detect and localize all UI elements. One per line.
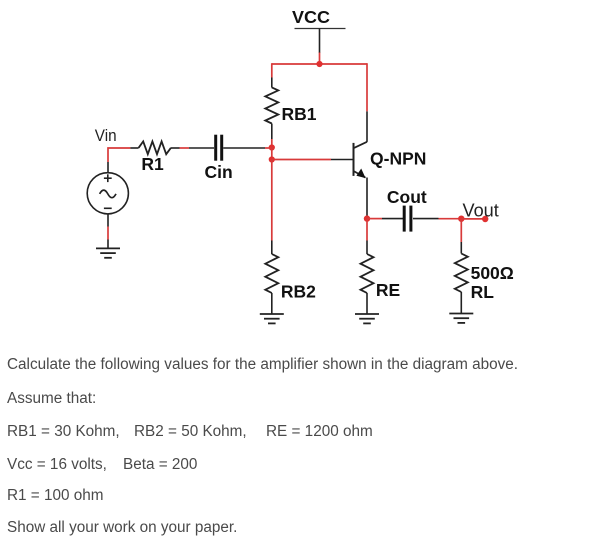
svg-text:Cin: Cin — [205, 162, 233, 182]
node Vout terminal — [482, 216, 488, 222]
wire Cin to junction (red) — [265, 147, 272, 149]
wire emitter node to Cout (red) — [367, 218, 382, 220]
wire RE to ground — [366, 293, 368, 314]
resistor RB2 — [265, 254, 278, 293]
wire Cout to Vout (black) — [413, 218, 439, 220]
wire Cout to Vout (red) — [439, 218, 462, 220]
wire rail to RB1 (red) — [271, 63, 273, 77]
wire RL (black) — [460, 242, 462, 254]
voltage source V1 — [87, 162, 128, 227]
svg-text:RB1: RB1 — [282, 104, 317, 124]
wire to Cout (black) — [382, 218, 403, 220]
svg-text:Q-NPN: Q-NPN — [370, 149, 426, 169]
wire VCC bar to rail (black) — [319, 29, 321, 54]
wire Cin to junction (black) — [223, 147, 265, 149]
wire RB1 to base node (black) — [271, 124, 273, 140]
wire RL junction down (red) — [460, 219, 462, 242]
wire base node to transistor (red) — [272, 159, 331, 161]
wire base node down to RB2 (red) — [271, 160, 273, 241]
node emitter junction — [364, 215, 370, 221]
VCC power symbol bar — [295, 28, 346, 30]
svg-text:RB2: RB2 — [281, 282, 316, 302]
capacitor Cin — [216, 135, 222, 161]
wire to Vout terminal — [461, 218, 485, 220]
wire to R1 (black) — [130, 147, 138, 149]
problem statement text — [7, 356, 518, 374]
wire R1 to Cin (red) — [180, 147, 190, 149]
wire source to ground (black) — [107, 240, 109, 249]
svg-text:Vin: Vin — [95, 127, 117, 145]
wire to RB2 (black) — [271, 241, 273, 255]
wire base node to transistor (black) — [331, 159, 353, 161]
ground (source) — [96, 248, 120, 257]
transistor Q-NPN — [354, 111, 368, 218]
wire emitter to RE (black) — [366, 241, 368, 255]
svg-text:RE: RE — [376, 280, 400, 300]
wire R1 to Cin (black 2) — [189, 147, 214, 149]
resistor R1 — [139, 141, 171, 154]
wire R1 to Cin (black) — [171, 147, 180, 149]
wire RB1 to base node (red) — [271, 139, 273, 148]
ground (RL) — [449, 314, 473, 323]
node base junction — [269, 156, 275, 162]
svg-text:RL: RL — [471, 282, 495, 302]
svg-text:VCC: VCC — [292, 7, 330, 27]
wire RL to ground — [460, 292, 462, 314]
wire rail to collector (red) — [366, 63, 368, 111]
wire top rail — [272, 63, 367, 65]
ground (RB2) — [260, 314, 284, 323]
node Cin/RB1 junction — [269, 144, 275, 150]
resistor RL — [455, 254, 468, 293]
wire emitter to RE (red) — [366, 219, 368, 241]
wire source to ground (red) — [107, 227, 109, 240]
resistor RB1 — [265, 87, 278, 123]
resistor RE — [361, 254, 374, 293]
wire junction to base node — [271, 148, 273, 160]
ground (RE) — [355, 314, 379, 323]
node RL junction — [458, 216, 464, 222]
capacitor Cout — [404, 206, 411, 232]
svg-text:R1: R1 — [141, 154, 164, 174]
node VCC rail junction — [316, 61, 322, 67]
wire RB2 to ground — [271, 293, 273, 314]
wire VCC bar to rail (red) — [319, 53, 321, 65]
svg-text:Vout: Vout — [463, 200, 499, 220]
svg-text:Cout: Cout — [387, 187, 427, 207]
svg-text:500Ω: 500Ω — [471, 263, 514, 283]
wire rail to RB1 (black) — [271, 78, 273, 88]
wire Vin corner (red) — [108, 148, 130, 162]
